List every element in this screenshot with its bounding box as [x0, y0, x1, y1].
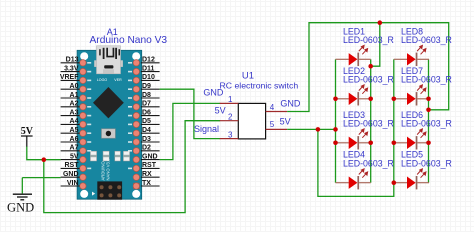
- svg-text:RST: RST: [142, 162, 157, 169]
- junction top rail: [378, 20, 383, 25]
- A1 pin D8: [141, 92, 160, 99]
- junction LED5 anode: [392, 180, 397, 185]
- wire 5V branch down to LED5-8 anode rail: [318, 129, 394, 196]
- mounting hole top-right: [132, 52, 140, 60]
- LED5: [394, 169, 429, 190]
- wire U1 pin 4 GND to top rail and LED cathode loop: [287, 23, 449, 112]
- A1 pin D11: [141, 65, 160, 72]
- LED2: [336, 85, 371, 106]
- wire 5V net down to bottom rail and up to U1 pin 2: [44, 121, 220, 213]
- svg-text:A1: A1: [70, 92, 79, 99]
- LED7: [394, 85, 429, 106]
- svg-text:D7: D7: [142, 101, 151, 108]
- wire GND flag to A1 GND pin: [22, 177, 60, 179]
- A1 pin D10: [141, 74, 160, 81]
- svg-text:A7: A7: [70, 145, 79, 152]
- svg-text:TX: TX: [142, 180, 151, 187]
- svg-text:GND: GND: [7, 201, 34, 215]
- svg-text:A0: A0: [70, 83, 79, 90]
- junction LED3 anode: [333, 141, 338, 146]
- A1 pin D7: [141, 101, 160, 108]
- SMD parts row: [90, 151, 129, 161]
- mounting hole bottom-left: [80, 190, 88, 198]
- svg-text:5V: 5V: [280, 116, 291, 126]
- A1 pin A1: [61, 92, 80, 99]
- svg-text:4: 4: [270, 103, 275, 112]
- wire LED1-4 anode rail: [335, 59, 337, 182]
- junction LED2 cathode: [368, 97, 373, 102]
- A1 pin D3: [141, 136, 160, 143]
- A1 pin A3: [61, 109, 80, 116]
- A1 pin RST right: [141, 162, 160, 169]
- A1 pin 5V: [61, 153, 80, 160]
- silk pin-name specks: [87, 62, 132, 169]
- svg-text:RX: RX: [142, 171, 152, 178]
- U1 pin 5: [266, 120, 288, 129]
- svg-text:A5: A5: [70, 127, 79, 134]
- LED8: [394, 45, 429, 66]
- 5V power flag: [21, 126, 34, 147]
- svg-text:LED-0603_R: LED-0603_R: [343, 74, 394, 84]
- U1 pin 4: [266, 103, 288, 112]
- junction LED7 cathode: [426, 97, 431, 102]
- pads right column: [133, 60, 139, 190]
- svg-text:VIN: VIN: [67, 180, 79, 187]
- svg-text:5V: 5V: [215, 106, 226, 116]
- wire LED5-8 anode rail: [393, 59, 395, 182]
- silk arrow mark: [92, 192, 95, 196]
- A1 pin GND right: [141, 153, 160, 160]
- junction LED6 cathode: [426, 141, 431, 146]
- svg-text:LOGO: LOGO: [97, 78, 108, 82]
- junction LED2 anode: [333, 97, 338, 102]
- svg-text:VER: VER: [114, 78, 122, 82]
- LED3: [336, 129, 371, 150]
- svg-text:RST: RST: [65, 162, 80, 169]
- svg-text:GND: GND: [203, 87, 224, 97]
- IC U1 body rectangle: [238, 103, 265, 138]
- svg-text:D10: D10: [142, 74, 155, 81]
- A1 pin D4: [141, 127, 160, 134]
- svg-text:A2: A2: [70, 101, 79, 108]
- svg-text:3: 3: [228, 130, 233, 139]
- junction 5V at drop: [316, 127, 321, 132]
- LED4: [336, 169, 371, 190]
- junction LED7 anode: [392, 97, 397, 102]
- A1 pin A7: [61, 145, 80, 152]
- svg-text:D4: D4: [142, 127, 151, 134]
- junction LED3 cathode: [368, 141, 373, 146]
- wire A1 GND right to U1 pin 1: [160, 103, 221, 159]
- svg-text:VREF: VREF: [60, 74, 79, 81]
- A1 pin D13: [61, 57, 80, 64]
- A1 pin D9: [141, 83, 160, 90]
- LED6: [394, 129, 429, 150]
- svg-text:5: 5: [270, 120, 275, 129]
- wire cathode rail link to top rail: [371, 23, 380, 66]
- A1 pin D5: [141, 118, 160, 125]
- A1 pin D2: [141, 145, 160, 152]
- Arduino Nano board A1: [77, 46, 142, 200]
- pads left column: [80, 60, 86, 190]
- wire D9 to U1 pin 3 Signal: [160, 89, 221, 138]
- svg-text:LED-0603_R: LED-0603_R: [343, 35, 394, 45]
- board body: [77, 50, 142, 199]
- svg-text:GND: GND: [63, 171, 79, 178]
- svg-text:A6: A6: [70, 136, 79, 143]
- U1 pin 1: [220, 95, 239, 104]
- junction 5V net at A1 5V pin: [42, 157, 47, 162]
- svg-text:GND: GND: [280, 99, 301, 109]
- svg-text:D12: D12: [142, 57, 155, 64]
- A1 pin D12: [141, 57, 160, 64]
- svg-text:LED-0603_R: LED-0603_R: [401, 74, 452, 84]
- svg-text:5V: 5V: [21, 126, 34, 137]
- svg-text:3.3V: 3.3V: [64, 65, 79, 72]
- U1 pin 3: [220, 130, 239, 139]
- A1 pin RX: [141, 171, 160, 178]
- ICSP header: [97, 181, 122, 199]
- svg-text:NANO V3.0: NANO V3.0: [106, 158, 111, 181]
- svg-text:D6: D6: [142, 109, 151, 116]
- A1 pin A0: [61, 83, 80, 90]
- junction 5V at anode rail: [333, 127, 338, 132]
- svg-text:RC electronic switch: RC electronic switch: [220, 80, 299, 90]
- ground: [7, 178, 34, 215]
- U1 pin 2: [220, 113, 239, 122]
- junction cathode link: [368, 64, 373, 69]
- junction LED6 anode: [392, 141, 397, 146]
- svg-text:D11: D11: [142, 65, 155, 72]
- A1 pin 3.3V: [61, 65, 80, 72]
- wire LED1-4 cathode rail: [370, 59, 372, 182]
- svg-text:A4: A4: [70, 118, 79, 125]
- wire LED5-8 cathode rail: [428, 59, 430, 182]
- A1 pin TX: [141, 180, 160, 187]
- svg-text:5V: 5V: [70, 153, 79, 160]
- svg-text:1: 1: [228, 95, 233, 104]
- A1 pin A4: [61, 118, 80, 125]
- mounting hole top-left: [80, 52, 88, 60]
- A1 pin D6: [141, 109, 160, 116]
- svg-text:D5: D5: [142, 118, 151, 125]
- svg-text:D8: D8: [142, 92, 151, 99]
- mini-USB connector: [94, 60, 97, 67]
- svg-text:LED-0603_R: LED-0603_R: [343, 118, 394, 128]
- svg-text:LED-0603_R: LED-0603_R: [401, 35, 452, 45]
- A1 pin A5: [61, 127, 80, 134]
- svg-text:A3: A3: [70, 109, 79, 116]
- svg-text:LED-0603_R: LED-0603_R: [343, 158, 394, 168]
- wire U1 pin 5 5V to LED1-4 anode rail: [287, 128, 335, 130]
- mounting hole bottom-right: [132, 190, 140, 198]
- svg-text:Signal: Signal: [194, 124, 219, 134]
- svg-text:GND: GND: [142, 153, 158, 160]
- A1 pin RST left: [61, 162, 80, 169]
- svg-text:LED-0603_R: LED-0603_R: [401, 158, 452, 168]
- junction cathode loop: [426, 108, 431, 113]
- wire 5V flag to A1 5V pin: [27, 147, 61, 160]
- svg-text:2: 2: [228, 113, 233, 122]
- reset button: [102, 129, 116, 138]
- square pad bottom-right: [134, 183, 140, 189]
- svg-text:D2: D2: [142, 145, 151, 152]
- svg-text:Arduino Nano V3: Arduino Nano V3: [90, 35, 168, 46]
- A1 pin GND left: [61, 171, 80, 178]
- A1 pin VIN: [61, 180, 80, 187]
- svg-text:LED-0603_R: LED-0603_R: [401, 118, 452, 128]
- A1 pin VREF: [60, 74, 80, 81]
- svg-text:D9: D9: [142, 83, 151, 90]
- LED1: [336, 45, 371, 66]
- ATmega chip (rotated square): [93, 87, 124, 118]
- svg-text:D13: D13: [66, 57, 79, 64]
- svg-text:D3: D3: [142, 136, 151, 143]
- A1 pin A2: [61, 101, 80, 108]
- A1 pin A6: [61, 136, 80, 143]
